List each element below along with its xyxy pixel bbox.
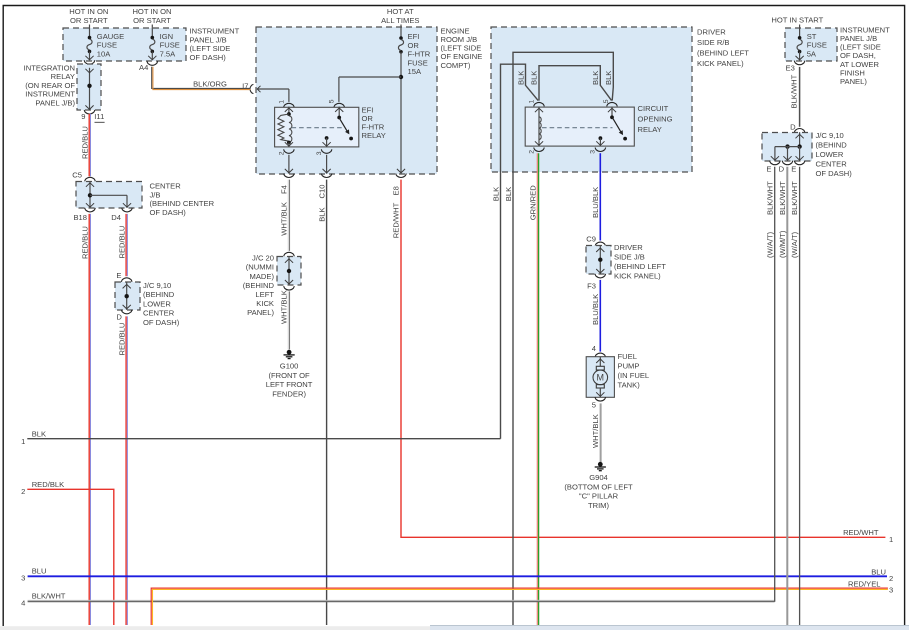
svg-text:KICK: KICK [256,299,274,308]
CO switch common dot [610,115,614,119]
wire internal J/C 20 [288,256,290,285]
svg-text:RED/BLK: RED/BLK [32,480,64,489]
svg-text:FENDER): FENDER) [272,389,306,398]
svg-text:15A: 15A [408,67,422,76]
wire BLK/ORG (A4 to I7) [152,67,251,89]
svg-text:D: D [779,164,785,173]
junction box INSTRUMENT PANEL J/B (lower finish panel) [785,28,837,61]
svg-text:1: 1 [529,100,536,104]
svg-text:BLU: BLU [32,567,47,576]
svg-text:10A: 10A [97,50,111,59]
connector pair gauge fuse to integration relay [84,60,95,64]
switch blade [339,117,347,131]
CO relay coil lead pin 1 [535,108,543,112]
wire GRN/RED (CO pin 2 down) [536,153,538,625]
svg-text:(FRONT OF: (FRONT OF [268,371,310,380]
svg-text:5A: 5A [807,50,817,59]
svg-text:RELAY: RELAY [638,125,662,134]
wire BLK jumper pin1 to pin5 [539,66,612,101]
svg-text:C10: C10 [317,185,326,199]
svg-text:CENTER: CENTER [816,159,848,168]
connector D4 [122,208,133,212]
wire RED/WHT (E8 down and right) [401,180,885,538]
junction box J/C 9,10 (right) [762,133,812,162]
connector J/C 20 bottom [284,286,295,290]
wire 4 BLK/WHT [28,599,775,601]
svg-text:(BEHIND LEFT: (BEHIND LEFT [697,49,749,58]
CO switch contact pin 3 dot [599,136,603,140]
svg-text:HOT AT: HOT AT [387,7,414,16]
svg-text:3: 3 [589,150,596,154]
relay INTEGRATION RELAY box [77,64,101,110]
svg-text:1: 1 [21,437,25,446]
svg-text:D: D [790,122,796,131]
ground G100 [287,350,292,355]
svg-text:DRIVER: DRIVER [614,243,643,252]
svg-text:M: M [597,373,605,383]
connector F3 [595,274,606,278]
junction dot J/C 20 [287,269,291,273]
wire RED/BLU (D4 to J/C 9,10) [125,214,127,276]
junction box DRIVER SIDE R/B [491,27,692,172]
svg-text:(BEHIND CENTER: (BEHIND CENTER [150,199,215,208]
wire 1 BLK (splice to driver side R/B) [27,438,500,440]
svg-text:G100: G100 [280,362,299,371]
wire internal CENTER J/B [89,181,91,207]
svg-text:"C" PILLAR: "C" PILLAR [579,492,619,501]
wire WHT/BLK (F4 to J/C 20) [287,180,289,251]
svg-text:INSTRUMENT: INSTRUMENT [190,27,240,36]
svg-text:RED/BLU: RED/BLU [80,126,89,159]
wire BLU/BLK (F3 to fuel pump) [599,280,601,352]
wire feed into gauge fuse [89,25,91,38]
connector B18 [85,208,96,212]
fuel pump box [586,357,614,398]
junction dot CENTER J/B [88,193,92,197]
wire RED/YEL [151,588,888,625]
svg-text:HOT IN START: HOT IN START [771,16,823,25]
wire internal branch J/C right [775,146,800,148]
svg-text:OR START: OR START [70,16,108,25]
svg-text:PANEL J/B: PANEL J/B [190,35,227,44]
wire feed into ST fuse [799,25,801,38]
svg-text:D: D [116,312,122,321]
svg-text:F-HTR: F-HTR [408,50,431,59]
svg-text:(BEHIND: (BEHIND [243,281,275,290]
svg-text:PANEL): PANEL) [247,308,274,317]
wire pin 3 lead [326,138,328,147]
svg-text:ST: ST [807,32,817,41]
svg-text:WHT/BLK: WHT/BLK [591,414,600,448]
svg-text:FUSE: FUSE [807,41,827,50]
connector C5 [85,177,96,181]
svg-text:1: 1 [889,535,893,544]
wire EFI fuse to E8 exit [400,52,402,174]
svg-text:RED/WHT: RED/WHT [843,528,879,537]
wire BLK feed A (outer left, from splice 1) [501,64,539,439]
svg-text:RED/BLU: RED/BLU [117,226,126,259]
switch common dot [337,116,341,120]
svg-text:(BOTTOM OF LEFT: (BOTTOM OF LEFT [564,482,633,491]
svg-text:I11: I11 [94,112,104,121]
svg-text:E8: E8 [392,186,401,195]
CO wire pin 2 lead [535,141,543,145]
svg-text:J/C 9,10: J/C 9,10 [816,131,844,140]
relay coil lead pin 1 [288,107,290,114]
connector circuit opening relay pin 1 [534,102,545,106]
connector CO relay pin 3 [595,148,606,152]
connector D (J/C 9,10 right) [794,129,805,133]
wire pin 2 lead [288,143,290,147]
wire branch to relay pin 5 [339,76,401,78]
wire BLK/WHT vertical 1 (to wire 4) [774,167,776,602]
svg-text:OF DASH): OF DASH) [150,208,187,217]
svg-text:BLK: BLK [317,207,326,221]
wire internal J/C 9,10 [126,282,128,310]
svg-text:BLK: BLK [604,71,613,85]
svg-text:7.5A: 7.5A [160,50,177,59]
svg-text:(W/A/T): (W/A/T) [790,231,799,258]
wire ST fuse output [799,52,801,60]
connector A4 [147,61,158,65]
svg-text:BLK: BLK [504,187,513,201]
svg-text:DRIVER: DRIVER [697,27,726,36]
connector F4 [284,174,295,178]
svg-text:BLK/WHT: BLK/WHT [790,181,799,215]
connector D (J/C right 2) [782,161,793,165]
svg-text:(W/A/T): (W/A/T) [765,231,774,258]
wire BLK/WHT vertical 2 [786,167,788,625]
svg-text:TRIM): TRIM) [588,501,610,510]
motor M1 circle [593,370,608,385]
svg-text:F4: F4 [280,185,289,194]
connector relay pin 3 [321,149,332,153]
svg-text:SIDE R/B: SIDE R/B [697,38,730,47]
svg-text:OF DASH): OF DASH) [143,318,180,327]
svg-text:(BEHIND: (BEHIND [816,140,848,149]
svg-text:ALL TIMES: ALL TIMES [381,16,419,25]
svg-text:RED/YEL: RED/YEL [848,579,881,588]
junction dot integration relay [87,84,91,88]
svg-text:F3: F3 [587,281,596,290]
svg-text:4: 4 [21,598,25,607]
svg-text:BLK/WHT: BLK/WHT [789,74,798,108]
connector fuel pump pin 4 [595,353,606,357]
svg-text:RED/WHT: RED/WHT [392,202,401,238]
svg-text:KICK PANEL): KICK PANEL) [614,272,661,281]
wire feed into EFI fuse [400,25,402,39]
svg-text:PANEL): PANEL) [840,77,867,86]
svg-text:FUSE: FUSE [408,58,428,67]
svg-text:E: E [766,164,771,173]
wire pin 3 to C10 exit [326,155,328,174]
CO wire pin 3 lead [599,138,601,146]
ground G904 [598,462,603,467]
coil EFI relay [287,112,291,116]
svg-text:(BEHIND LEFT: (BEHIND LEFT [614,262,666,271]
svg-text:J/B: J/B [150,190,161,199]
connector E (J/C 9,10) [121,278,132,282]
connector CO relay pin 2 [534,148,545,152]
svg-text:HOT IN ON: HOT IN ON [132,7,171,16]
svg-text:INTEGRATION: INTEGRATION [24,63,75,72]
svg-text:2: 2 [529,150,536,154]
svg-text:PUMP: PUMP [618,362,640,371]
wire 2 RED/BLK [27,489,114,625]
fuse EFI OR F-HTR FUSE 15A [399,36,403,40]
svg-text:2: 2 [21,487,25,496]
svg-text:(NUMMI: (NUMMI [246,263,274,272]
fuse IGN FUSE 7.5A [151,36,155,40]
junction dot J/C right a [785,144,789,148]
connector E (J/C right 1) [770,161,781,165]
svg-text:C9: C9 [586,235,596,244]
svg-text:(IN FUEL: (IN FUEL [618,371,650,380]
svg-text:SIDE J/B: SIDE J/B [614,253,645,262]
svg-text:BLK/ORG: BLK/ORG [193,80,227,89]
wire ign fuse output [151,51,153,59]
svg-text:(BEHIND: (BEHIND [143,290,175,299]
fuel pump motor lead top [599,357,601,367]
svg-text:(LEFT SIDE: (LEFT SIDE [190,44,231,53]
svg-text:CENTER: CENTER [143,309,175,318]
motor brush bottom [596,385,604,388]
svg-text:E: E [116,271,121,280]
svg-text:OF DASH): OF DASH) [190,53,227,62]
svg-text:LEFT FRONT: LEFT FRONT [266,380,313,389]
connector circuit opening relay pin 5 [607,102,618,106]
connector J/C 20 top [284,252,295,256]
junction dot fuse branch [399,75,403,79]
junction box ENGINE ROOM J/B [256,27,437,174]
wire internal DRIVER SIDE J/B [599,246,601,274]
svg-text:J/C 20: J/C 20 [252,254,274,263]
svg-text:BLK/WHT: BLK/WHT [778,181,787,215]
svg-text:3: 3 [21,574,25,583]
relay CIRCUIT OPENING RELAY box [525,107,634,146]
connector C10 [321,174,332,178]
svg-text:1: 1 [278,100,285,104]
svg-text:RELAY: RELAY [362,131,386,140]
junction box CENTER J/B [76,182,142,209]
CO relay dashed link [542,127,613,129]
wire BLU/BLK (CO pin 3 to C9) [599,153,601,240]
junction dot DRIVER SIDE J/B [598,258,602,262]
switch contact pin 3 dot [325,136,329,140]
svg-text:C5: C5 [72,171,82,180]
svg-text:FUEL: FUEL [618,352,637,361]
svg-text:OF DASH): OF DASH) [816,169,853,178]
svg-text:KICK PANEL): KICK PANEL) [697,59,744,68]
svg-text:OR: OR [408,41,420,50]
wire pin 2 to F4 exit [288,155,290,174]
svg-text:MADE): MADE) [250,272,275,281]
svg-text:COMPT): COMPT) [441,61,471,70]
fuse GAUGE FUSE 10A [88,36,92,40]
svg-text:B18: B18 [73,213,87,222]
svg-text:CENTER: CENTER [150,182,182,191]
junction box J/C 9,10 (behind lower center of dash) [115,282,140,310]
svg-text:2: 2 [889,574,893,583]
svg-text:D4: D4 [111,213,121,222]
wire RED/BLU (below J/C 9,10) [125,316,127,625]
junction box DRIVER SIDE J/B [586,246,611,275]
svg-text:3: 3 [889,586,893,595]
svg-text:RED/BLU: RED/BLU [117,323,126,356]
svg-text:INSTRUMENT: INSTRUMENT [25,90,75,99]
wire BLK feed B (inner left) [513,52,613,625]
connector D (J/C 9,10) [121,310,132,314]
svg-text:IGN: IGN [160,32,174,41]
wire gauge fuse output [89,51,91,59]
svg-text:BLU/BLK: BLU/BLK [591,294,600,325]
svg-text:J/C 9,10: J/C 9,10 [143,281,171,290]
junction box INSTRUMENT PANEL J/B (left side of dash) [63,28,186,61]
CO relay switch pin 5 lead [611,107,613,118]
svg-text:BLK: BLK [530,71,539,85]
svg-text:BLK/WHT: BLK/WHT [32,591,66,600]
bottom scrollbar band [0,626,909,630]
junction box J/C 20 (NUMMI made) [277,257,301,286]
svg-text:BLK: BLK [591,71,600,85]
wire WHT/BLK (J/C 20 to G100) [287,291,289,349]
connector relay pin 5 [334,103,345,107]
svg-text:FUSE: FUSE [97,41,117,50]
svg-text:GRN/RED: GRN/RED [528,185,537,221]
svg-text:BLK: BLK [516,71,525,85]
svg-text:CIRCUIT: CIRCUIT [638,104,669,113]
connector E (J/C right 3) [794,161,805,165]
svg-text:2: 2 [278,151,285,155]
svg-text:5: 5 [592,401,596,410]
svg-text:(W/M/T): (W/M/T) [778,230,787,258]
coil CO relay [538,107,540,146]
fuel pump motor lead bottom [599,388,601,397]
connector 9 / I11 [84,110,95,114]
svg-text:BLK: BLK [32,429,46,438]
dashed link coil to switch [292,127,345,129]
fuse ST FUSE 5A [798,36,802,40]
svg-text:5: 5 [603,99,610,103]
svg-text:WHT/BLK: WHT/BLK [280,290,289,324]
svg-text:9: 9 [81,112,85,121]
svg-text:3: 3 [316,151,323,155]
wire BLK (C10 down) [326,180,328,625]
svg-text:HOT IN ON: HOT IN ON [69,7,108,16]
junction dot J/C right b [797,144,801,148]
connector fuel pump pin 5 [595,397,606,401]
connector E3 [794,61,805,65]
svg-text:TANK): TANK) [618,380,641,389]
wire BLK/WHT (E3 to D) [799,67,801,127]
wire BLK/WHT vertical 3 [799,167,801,625]
wire feed into ign fuse [151,25,153,38]
junction dot J/C 9,10 [125,294,129,298]
svg-text:BLK/WHT: BLK/WHT [765,181,774,215]
connector relay pin 2 [284,149,295,153]
svg-text:5: 5 [329,99,336,103]
svg-text:LOWER: LOWER [143,299,171,308]
CO switch blade [612,117,621,131]
svg-text:OPENING: OPENING [638,115,673,124]
svg-text:WHT/BLK: WHT/BLK [280,202,289,236]
wire RED/BLU (integration relay to C5) [88,114,90,177]
connector C9 [595,242,606,246]
wire RED/BLU (B18 down) [88,214,90,625]
svg-text:E: E [791,164,796,173]
svg-text:FUSE: FUSE [160,41,180,50]
wire WHT/BLK (pump to G904) [599,403,601,462]
svg-text:LOWER: LOWER [816,150,844,159]
svg-text:EFI: EFI [408,32,420,41]
motor brush top [596,366,604,370]
svg-text:4: 4 [592,344,596,353]
svg-text:RED/BLU: RED/BLU [80,226,89,259]
svg-text:BLU/BLK: BLU/BLK [591,187,600,218]
connector E8 [396,174,407,178]
svg-text:GAUGE: GAUGE [97,32,124,41]
wire 3 BLU [28,575,887,577]
svg-text:BLU: BLU [871,567,886,576]
svg-text:E3: E3 [786,63,795,72]
svg-text:G904: G904 [589,473,608,482]
svg-text:LEFT: LEFT [255,290,274,299]
wire I7 to relay pin 1 [257,88,289,90]
svg-text:RELAY: RELAY [51,72,75,81]
svg-text:PANEL J/B): PANEL J/B) [35,99,75,108]
svg-text:(ON REAR OF: (ON REAR OF [25,81,75,90]
svg-text:OR START: OR START [133,16,171,25]
svg-text:BLK: BLK [491,187,500,201]
relay EFI OR F-HTR RELAY box [275,107,359,147]
wire internal J/C 9,10 right [799,132,801,146]
wire through integration relay [89,68,91,110]
connector relay pin 1 [284,103,295,107]
relay switch pin 5 lead [338,107,340,118]
svg-text:A4: A4 [139,63,148,72]
connector I7 [250,84,253,93]
